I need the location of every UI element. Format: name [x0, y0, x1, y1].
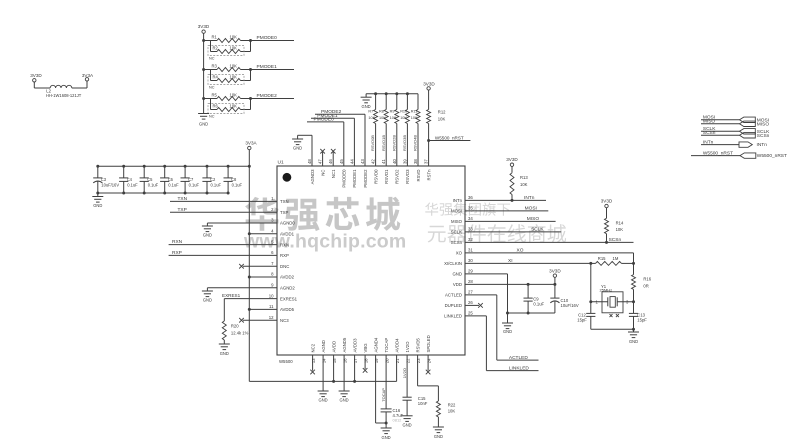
capacitor C6 0.1uF — [160, 165, 179, 195]
svg-text:0.1uF: 0.1uF — [211, 183, 222, 188]
wire (pin 12 NC3 no-connect) — [239, 318, 277, 323]
svg-text:R15: R15 — [598, 256, 606, 261]
svg-text:0812: 0812 — [393, 418, 403, 423]
svg-text:GND: GND — [382, 435, 391, 440]
svg-text:48: 48 — [307, 159, 312, 164]
svg-text:C2: C2 — [210, 177, 216, 182]
wire TXN (pin 1) — [170, 196, 277, 202]
svg-text:NC: NC — [209, 115, 215, 119]
svg-text:44: 44 — [349, 159, 354, 164]
node PMODE1 (pin 44 wire) — [311, 113, 354, 166]
resistor R14 10K — [605, 218, 624, 242]
svg-text:10K: 10K — [230, 93, 238, 98]
svg-text:10K: 10K — [368, 116, 375, 120]
power flag 3V3D (ferrite input) — [30, 73, 42, 88]
wire (3V3A rail to AVDD pins) — [249, 380, 396, 383]
wire TXP (pin 2) — [170, 207, 277, 213]
svg-text:RSVD2: RSVD2 — [395, 169, 400, 184]
node SCSn (off-page port) — [701, 130, 770, 139]
svg-text:29: 29 — [468, 269, 473, 274]
svg-text:C6: C6 — [168, 177, 174, 182]
capacitor C12 15pF — [577, 312, 595, 329]
op-amp U1 (W5500 IC body) — [277, 160, 465, 356]
resistor R12 10K — [427, 110, 447, 124]
wire (pin 26 DUPLED no-connect) — [465, 303, 483, 308]
svg-text:10: 10 — [269, 293, 274, 298]
crystal Y1 25MHz — [591, 284, 634, 317]
svg-text:MISO: MISO — [451, 219, 463, 224]
wire — [632, 289, 635, 313]
node PMODE2 (pin 43 wire) — [315, 109, 365, 166]
svg-text:HH-1W1608-121JT: HH-1W1608-121JT — [46, 93, 82, 98]
resistor R3 10K — [202, 64, 240, 72]
svg-text:RSVD: RSVD — [416, 170, 421, 182]
svg-text:R12: R12 — [438, 110, 446, 115]
ground (R20) — [219, 344, 230, 356]
svg-text:10K: 10K — [379, 116, 386, 120]
svg-text:AGND2: AGND2 — [280, 286, 295, 291]
svg-text:AGND0: AGND0 — [280, 221, 295, 226]
svg-text:18: 18 — [364, 358, 369, 363]
power flag 3V3D (VDD) — [549, 268, 561, 284]
power flag 3V3D (PMODE network) — [198, 24, 210, 113]
svg-text:AVDD2: AVDD2 — [280, 275, 295, 280]
node RSVD3B (wire to pin 39) — [402, 124, 407, 167]
resistor R2 10K (NC, dashed) — [208, 41, 251, 61]
resistor R20 12.4k 1% — [222, 321, 248, 340]
svg-text:NC: NC — [209, 86, 215, 90]
node INTn (off-page port) — [701, 139, 767, 148]
node W5500_nRST (off-page port) — [691, 150, 787, 159]
wire — [241, 68, 253, 81]
wire (pin 14 AGND) — [322, 355, 324, 391]
svg-text:GND: GND — [293, 146, 302, 151]
svg-text:16: 16 — [343, 358, 348, 363]
svg-text:38: 38 — [413, 159, 418, 164]
node PMODE1 — [251, 64, 295, 70]
svg-text:PMODE1: PMODE1 — [257, 64, 278, 70]
svg-text:10K: 10K — [230, 104, 238, 109]
wire (pin 19 AGND4) — [376, 355, 387, 423]
svg-text:TOCAP: TOCAP — [384, 338, 389, 353]
resistor R5 10K — [202, 93, 240, 101]
svg-text:21: 21 — [395, 358, 400, 363]
svg-text:INTn: INTn — [453, 198, 463, 203]
svg-text:10K: 10K — [616, 227, 624, 232]
wire RXP (pin 6) — [169, 250, 277, 256]
svg-text:39: 39 — [402, 159, 407, 164]
node SCSn (pin 32 wire) — [465, 237, 634, 244]
svg-text:SPDLED: SPDLED — [426, 335, 431, 352]
svg-text:R3: R3 — [212, 64, 218, 69]
wire (pin 17 AVDD3) — [354, 355, 356, 381]
svg-text:SCSn: SCSn — [609, 237, 622, 243]
svg-text:10K: 10K — [230, 46, 238, 51]
capacitor C15 10nF — [403, 396, 428, 416]
svg-text:RSVD3: RSVD3 — [405, 169, 410, 184]
wire (pin 37 RSTn) — [427, 124, 430, 167]
svg-text:RSVD5: RSVD5 — [415, 338, 420, 353]
svg-text:DNC: DNC — [280, 264, 289, 269]
svg-text:RSVD0B: RSVD0B — [370, 135, 375, 151]
svg-text:GND: GND — [434, 434, 443, 439]
svg-text:GND: GND — [203, 298, 212, 303]
wire (cap bank top rail) — [98, 165, 251, 168]
node MOSI (off-page port) — [701, 115, 769, 124]
wire (pin 24 SPDLED no-connect) — [426, 355, 431, 374]
svg-text:C3: C3 — [101, 177, 107, 182]
svg-text:AVDD: AVDD — [331, 341, 336, 353]
node 1V2O (pin 22 wire) — [402, 355, 407, 397]
ground (pin 14) — [318, 391, 329, 403]
svg-text:45: 45 — [339, 159, 344, 164]
svg-text:0R: 0R — [643, 283, 648, 288]
svg-text:R20: R20 — [231, 324, 239, 329]
svg-text:10K: 10K — [230, 75, 238, 80]
svg-text:INTn: INTn — [524, 195, 535, 201]
svg-text:3V3D: 3V3D — [198, 24, 210, 29]
svg-text:MOSI: MOSI — [525, 206, 537, 212]
svg-text:25MHz: 25MHz — [600, 288, 613, 293]
power flag 3V3A (ferrite output) — [82, 73, 94, 81]
svg-text:25: 25 — [468, 311, 473, 316]
svg-text:R6: R6 — [213, 104, 219, 109]
svg-text:RSVD3B: RSVD3B — [402, 135, 407, 151]
svg-text:24: 24 — [427, 358, 432, 363]
svg-text:0.1uF: 0.1uF — [189, 183, 200, 188]
svg-text:GND: GND — [203, 233, 212, 238]
wire (pin 7 DNC no-connect) — [239, 264, 277, 269]
svg-text:10K: 10K — [400, 116, 407, 120]
wire (pin 13 NC2 no-connect) — [310, 355, 315, 374]
svg-text:32: 32 — [468, 237, 473, 242]
svg-text:R10: R10 — [400, 110, 407, 114]
svg-text:GND: GND — [503, 329, 512, 334]
wire (pin 28 VDD) — [465, 283, 556, 286]
svg-text:NC1: NC1 — [331, 169, 336, 178]
svg-text:C7: C7 — [188, 177, 194, 182]
node RSVD0B (wire to pin 42) — [370, 124, 375, 167]
resistor R15 1M — [591, 256, 634, 265]
resistor R9 10K — [390, 94, 399, 124]
wire (pin 46 NC1 no-connect) — [331, 149, 336, 166]
resistor R7 10K — [368, 94, 377, 124]
svg-text:GND: GND — [93, 203, 102, 208]
svg-text:46: 46 — [328, 159, 333, 164]
wire — [241, 39, 253, 52]
capacitor C9 0.1uF — [524, 284, 545, 313]
capacitor C3 10uF/16V — [93, 165, 119, 195]
wire (crystal ground rail) — [591, 328, 635, 331]
svg-text:10K: 10K — [230, 35, 238, 40]
svg-text:C5: C5 — [147, 177, 153, 182]
svg-text:RXP: RXP — [172, 250, 182, 256]
svg-text:TXN: TXN — [280, 199, 289, 204]
svg-text:RXN: RXN — [172, 239, 183, 245]
svg-text:14: 14 — [322, 358, 327, 363]
svg-text:R13: R13 — [520, 175, 528, 180]
svg-text:SCSn: SCSn — [451, 240, 463, 245]
svg-text:NC: NC — [209, 57, 215, 61]
capacitor C10 10uF/16V — [550, 284, 579, 313]
ground (pin 3) — [202, 223, 213, 238]
svg-text:0.1uF: 0.1uF — [232, 183, 243, 188]
resistor R16 0R — [632, 275, 652, 290]
svg-text:GND: GND — [403, 422, 412, 427]
svg-text:LINKLED: LINKLED — [509, 365, 530, 371]
wire (pin 48 AGND3) — [298, 135, 312, 166]
node LINKLED (pin 25 wire) — [465, 316, 539, 371]
svg-text:43: 43 — [360, 159, 365, 164]
svg-text:AGND5: AGND5 — [342, 337, 347, 352]
svg-text:37: 37 — [424, 159, 429, 164]
capacitor C5 0.1uF — [140, 165, 159, 195]
svg-text:R4: R4 — [213, 75, 219, 80]
svg-text:PMODE2: PMODE2 — [321, 109, 342, 115]
wire (RSVD pull-down top rail) — [366, 92, 418, 95]
svg-text:GND: GND — [452, 272, 462, 277]
svg-text:0.1uF: 0.1uF — [168, 183, 179, 188]
svg-text:PMODE2: PMODE2 — [363, 169, 368, 188]
node SCLK (pin 33 wire) — [465, 227, 561, 233]
svg-text:31: 31 — [468, 248, 473, 253]
wire (pin 29 GND) — [465, 274, 508, 313]
svg-text:RSVD2B: RSVD2B — [391, 135, 396, 151]
svg-text:AGND4: AGND4 — [373, 337, 378, 352]
ground (RSVD rail) — [361, 94, 372, 109]
svg-text:10K: 10K — [411, 116, 418, 120]
resistor R4 10K (NC, dashed) — [208, 70, 251, 90]
svg-text:RSVD4B: RSVD4B — [413, 135, 418, 151]
ground (TOCAP) — [381, 428, 392, 440]
svg-text:R7: R7 — [368, 110, 373, 114]
svg-text:SCLK: SCLK — [451, 230, 462, 235]
svg-text:R2: R2 — [213, 46, 219, 51]
resistor R6 10K (NC, dashed) — [208, 99, 251, 119]
wire — [241, 97, 253, 110]
svg-text:MISO: MISO — [527, 216, 540, 222]
svg-text:DUPLED: DUPLED — [445, 303, 462, 308]
power flag 3V3A (analog rail) — [245, 141, 257, 167]
svg-text:36: 36 — [468, 195, 473, 200]
wire — [72, 81, 87, 88]
inductor L2 — [46, 85, 82, 98]
svg-text:TXP: TXP — [178, 207, 187, 213]
svg-text:30: 30 — [468, 258, 473, 263]
svg-text:PMODE2: PMODE2 — [257, 93, 278, 99]
svg-text:AGND3: AGND3 — [310, 169, 315, 184]
ground (C15) — [402, 416, 413, 428]
capacitor C4 0.1uF — [119, 165, 138, 195]
wire (pin 15 AVDD) — [333, 355, 335, 381]
wire (pin 11 AVDD5) — [248, 308, 277, 311]
svg-text:15pF: 15pF — [637, 317, 647, 322]
svg-text:19: 19 — [374, 358, 379, 363]
svg-text:RXP: RXP — [280, 253, 289, 258]
svg-text:R11: R11 — [411, 110, 418, 114]
wire RXN (pin 5) — [169, 239, 277, 245]
svg-text:10K: 10K — [230, 64, 238, 69]
svg-text:RSVD1B: RSVD1B — [381, 135, 386, 151]
svg-text:GND: GND — [319, 398, 328, 403]
svg-text:MOSI: MOSI — [451, 209, 462, 214]
svg-text:XO: XO — [456, 251, 463, 256]
svg-text:VDD: VDD — [453, 282, 462, 287]
node TOCAP (pin 20 wire) — [381, 355, 386, 409]
svg-text:23: 23 — [416, 358, 421, 363]
svg-text:10K: 10K — [520, 182, 528, 187]
power flag 3V3D (R13) — [506, 157, 518, 173]
wire — [589, 263, 592, 313]
node MISO (off-page port) — [701, 119, 769, 128]
svg-text:RSTn: RSTn — [426, 169, 431, 181]
wire (cap bank bottom rail) — [98, 192, 228, 194]
svg-text:17: 17 — [353, 358, 358, 363]
resistor R1 10K — [202, 35, 240, 43]
svg-text:AVDD4: AVDD4 — [394, 338, 399, 353]
svg-text:42: 42 — [371, 159, 376, 164]
node RSVD1B (wire to pin 41) — [381, 124, 386, 167]
svg-text:C8: C8 — [231, 177, 237, 182]
svg-text:TXN: TXN — [178, 196, 188, 202]
svg-text:15pF: 15pF — [577, 317, 587, 322]
ground (R22) — [433, 427, 444, 439]
ground (pin 48) — [292, 135, 303, 150]
svg-text:28: 28 — [468, 279, 473, 284]
ground (cap bank) — [92, 193, 103, 208]
svg-text:10uF/16V: 10uF/16V — [561, 303, 579, 308]
svg-text:GND: GND — [220, 351, 229, 356]
svg-text:3V3A: 3V3A — [245, 141, 257, 146]
svg-text:RXN: RXN — [280, 242, 289, 247]
svg-text:R5: R5 — [212, 93, 218, 98]
node MOSI (pin 35 wire) — [465, 206, 548, 212]
wire (pin 18 VBG no-connect) — [363, 355, 368, 373]
wire (pin 9 AGND2) — [207, 287, 277, 289]
svg-text:3V3D: 3V3D — [423, 81, 435, 86]
resistor R8 10K — [379, 94, 388, 124]
capacitor C13 15pF — [629, 312, 647, 329]
node W5500_nRST (stub) — [429, 135, 471, 140]
resistor R13 10K — [510, 173, 528, 201]
node XI (pin 30 wire) — [465, 258, 592, 265]
svg-text:TXP: TXP — [280, 210, 288, 215]
resistor R22 10K — [436, 401, 456, 427]
svg-text:PMODE0: PMODE0 — [342, 169, 347, 188]
svg-text:15: 15 — [332, 358, 337, 363]
svg-text:10K: 10K — [390, 116, 397, 120]
svg-text:VBG: VBG — [363, 343, 368, 353]
capacitor C7 0.1uF — [181, 165, 200, 195]
svg-text:1V2O: 1V2O — [402, 368, 407, 378]
svg-text:RSVD1: RSVD1 — [384, 169, 389, 184]
wire (pin 16 AGND5) — [343, 355, 345, 391]
node U1 pin names and numbers — [269, 159, 474, 364]
wire — [223, 340, 225, 344]
svg-text:3V3D: 3V3D — [549, 268, 561, 273]
svg-text:AVDD5: AVDD5 — [280, 307, 295, 312]
wire (pin 21 AVDD4) — [396, 355, 398, 381]
wire (3V3A vertical rail) — [248, 166, 250, 381]
resistor R10 10K — [400, 94, 409, 124]
svg-text:GND: GND — [362, 104, 371, 109]
svg-text:XI/CLKIN: XI/CLKIN — [444, 261, 462, 266]
svg-text:ACTLED: ACTLED — [445, 293, 462, 298]
svg-text:20: 20 — [385, 358, 390, 363]
svg-text:SCSn: SCSn — [757, 133, 770, 139]
ground (crystal) — [628, 329, 639, 344]
svg-text:34: 34 — [468, 216, 473, 221]
node EXRES1 (pin 10 wire) — [222, 293, 277, 299]
ground (pin 9) — [202, 288, 213, 303]
svg-text:W5500_nRST: W5500_nRST — [757, 153, 787, 159]
power flag 3V3D (R12) — [423, 81, 435, 109]
svg-text:EXRES1: EXRES1 — [280, 296, 298, 301]
svg-text:26: 26 — [468, 300, 473, 305]
power flag 3V3D (R14) — [601, 198, 613, 218]
svg-text:10K: 10K — [448, 409, 456, 414]
svg-text:12: 12 — [269, 315, 274, 320]
svg-text:PMODE0: PMODE0 — [257, 35, 278, 41]
svg-text:W5500: W5500 — [279, 359, 293, 364]
svg-text:R16: R16 — [643, 277, 651, 282]
svg-text:GND: GND — [199, 121, 208, 126]
svg-text:SCLK: SCLK — [531, 227, 544, 233]
svg-text:R22: R22 — [448, 402, 456, 407]
capacitor C8 0.1uF — [224, 165, 243, 195]
svg-text:10nF: 10nF — [418, 401, 428, 406]
svg-text:11: 11 — [269, 304, 274, 309]
svg-text:3V3D: 3V3D — [30, 73, 42, 78]
wire — [34, 87, 50, 89]
wire — [223, 299, 225, 321]
ground (decoupling) — [502, 313, 513, 334]
svg-text:U1: U1 — [278, 160, 284, 166]
svg-text:GND: GND — [340, 398, 349, 403]
svg-text:AVDD1: AVDD1 — [280, 232, 295, 237]
svg-text:W5500_nRST: W5500_nRST — [435, 135, 464, 140]
node MISO (pin 34 wire) — [465, 216, 556, 222]
svg-text:AGND: AGND — [321, 340, 326, 352]
svg-text:12.4k 1%: 12.4k 1% — [231, 331, 249, 336]
node PMODE0 — [251, 35, 295, 41]
capacitor C2 0.1uF — [202, 165, 221, 195]
capacitor C16 4.7uF — [381, 408, 404, 428]
svg-text:22: 22 — [406, 358, 411, 363]
wire (pin 4 AVDD1) — [248, 232, 277, 235]
svg-text:3V3D: 3V3D — [601, 198, 613, 203]
svg-text:XI: XI — [508, 258, 513, 264]
node PMODE2 — [251, 93, 295, 99]
wire (pin 23 RSVD5) — [418, 355, 439, 401]
node PMODE0 (pin 45 wire) — [307, 117, 344, 167]
ground (pin 16) — [339, 391, 350, 403]
svg-text:C4: C4 — [127, 177, 133, 182]
svg-text:AVDD3: AVDD3 — [352, 338, 357, 353]
svg-text:ACTLED: ACTLED — [509, 355, 528, 361]
decorative watermark (skip-label ok) — [243, 197, 566, 253]
node SCLK (off-page port) — [701, 126, 770, 135]
svg-text:0.1uF: 0.1uF — [148, 183, 159, 188]
wire (pin 3 AGND0) — [207, 222, 277, 224]
svg-text:10K: 10K — [438, 116, 446, 121]
svg-text:NC3: NC3 — [280, 318, 289, 323]
svg-text:R8: R8 — [379, 110, 384, 114]
svg-text:33: 33 — [468, 227, 473, 232]
svg-text:XO: XO — [517, 248, 524, 254]
node RSVD4B (wire to pin 38) — [413, 124, 418, 167]
svg-text:35: 35 — [468, 206, 473, 211]
